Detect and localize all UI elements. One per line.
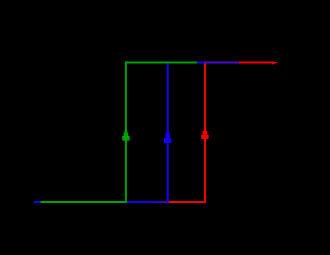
arrowhead: red right-pointing arrow at end of top red segment — [272, 61, 278, 64]
wire: top blue-over-red blended segment — [205, 62, 239, 64]
wire: top blue segment (blue curve upper branch) — [197, 62, 205, 64]
arrowhead: red up arrow on red rise (stepped) — [201, 128, 208, 139]
wire: top red segment (red curve upper branch) — [239, 62, 274, 64]
wire: red vertical rise — [204, 61, 206, 203]
wire: bottom blue segment (start of blue curve, left end) — [34, 201, 41, 203]
wire: blue vertical rise — [167, 61, 169, 203]
wire: top green segment (green curve upper branch) — [125, 62, 197, 64]
wire: bottom green segment (green curve lower branch) — [41, 201, 127, 203]
wire: bottom blue-over-red blended segment — [151, 201, 169, 203]
wire: bottom red segment (red curve lower branch) — [168, 201, 206, 203]
wire: green vertical rise — [125, 61, 127, 203]
arrowhead: blue up arrow on blue rise (stepped) — [164, 131, 171, 143]
wire: bottom blue segment (blue curve lower branch, right of green rise) — [127, 201, 151, 203]
arrowhead: green up arrow on green rise (stepped) — [122, 130, 129, 141]
